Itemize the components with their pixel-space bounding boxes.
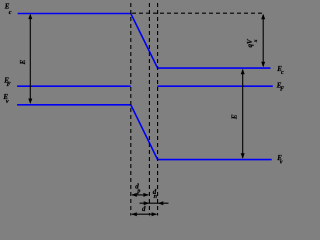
dimension arrow: dp (width of depletion region on p-side) bbox=[131, 193, 149, 197]
svg-text:F: F bbox=[280, 87, 284, 93]
dimension arrow: built-in potential qVx (vertical double arrow at right) bbox=[261, 14, 265, 67]
svg-text:c: c bbox=[9, 10, 12, 16]
svg-text:p: p bbox=[136, 189, 140, 195]
label dp bbox=[135, 182, 140, 194]
wire: vertical dashed boundary line 3 (right edge of depletion region) bbox=[157, 3, 159, 216]
dimension arrow: dn (width of depletion region on n-side, arrows outside) bbox=[140, 201, 169, 205]
svg-text:v: v bbox=[280, 160, 283, 166]
wire: vertical dashed boundary line 1 (left edge of depletion region) bbox=[130, 3, 132, 216]
svg-text:F: F bbox=[7, 82, 11, 88]
svg-text:E: E bbox=[4, 2, 10, 10]
svg-text:d: d bbox=[142, 205, 146, 213]
label Ec (n-side, right edge) bbox=[276, 65, 284, 76]
wire: vertical dashed boundary line 2 (metallurgical junction) bbox=[148, 3, 150, 216]
wire: conduction band edge Ec (blue polyline, p-side flat, slope, n-side flat) bbox=[18, 14, 271, 69]
label Ev (n-side, right edge) bbox=[276, 154, 283, 166]
label dn bbox=[153, 188, 158, 200]
wire: Fermi level EF n-side segment bbox=[157, 85, 272, 87]
wire: horizontal dashed reference line at p-side Ec level bbox=[132, 12, 264, 14]
wire: valence band edge Ev (blue polyline) bbox=[17, 105, 272, 160]
svg-text:c: c bbox=[281, 70, 284, 76]
label EF (p-side) bbox=[3, 76, 10, 88]
label Ec (p-side, top left) bbox=[4, 2, 12, 16]
label Ev (p-side) bbox=[2, 93, 8, 105]
dimension arrow: band gap Eg on p-side (vertical double arrow) bbox=[28, 14, 32, 104]
dimension arrow: band gap Eg on n-side (vertical double arrow) bbox=[241, 69, 245, 159]
label EF (n-side, right edge) bbox=[276, 81, 284, 92]
svg-text:E: E bbox=[231, 114, 239, 120]
dimension arrow: d (total depletion width) bbox=[131, 212, 157, 216]
svg-text:v: v bbox=[6, 99, 9, 105]
wire: Fermi level EF p-side segment bbox=[17, 85, 131, 87]
svg-text:E: E bbox=[19, 59, 27, 65]
